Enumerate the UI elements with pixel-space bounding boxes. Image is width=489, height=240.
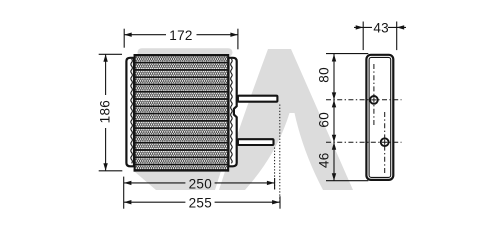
port center crosses (371, 97, 387, 145)
center line lower port (384, 112, 386, 173)
dimension column 80/60/46 (326, 54, 368, 181)
svg-text:250: 250 (189, 176, 212, 191)
lower pipe (238, 139, 274, 145)
dimension 172 (124, 29, 238, 50)
upper pipe (238, 96, 278, 102)
svg-text:43: 43 (373, 20, 389, 35)
left tank wavy seam (131, 59, 133, 163)
svg-text:255: 255 (189, 196, 212, 211)
svg-text:46: 46 (316, 152, 331, 168)
watermark lambda logo (219, 49, 353, 190)
watermark top band (138, 48, 233, 57)
upper port circle (370, 96, 378, 104)
dotted extension line from upper pipe (279, 105, 281, 204)
solid stub at 250 extension (274, 178, 276, 190)
svg-text:60: 60 (316, 112, 331, 128)
core left edge (134, 54, 136, 172)
svg-text:186: 186 (97, 100, 112, 123)
right tank (229, 58, 237, 167)
core top line (134, 54, 229, 56)
side view tank profile (366, 55, 393, 180)
svg-text:172: 172 (169, 28, 192, 43)
left tank (126, 58, 134, 167)
core right edge (227, 54, 229, 172)
right tank wavy seam (231, 59, 233, 163)
core bottom line (134, 169, 229, 171)
core block with fins (134, 54, 230, 172)
dimension 250 (124, 177, 275, 209)
horizontal center line lower (326, 141, 402, 143)
dotted extension line from lower pipe (274, 148, 276, 190)
horizontal center line upper (326, 99, 402, 101)
svg-text:80: 80 (316, 67, 331, 83)
dimension 186 (99, 54, 123, 171)
watermark swoosh behind core (134, 58, 237, 190)
center line upper port (373, 64, 375, 126)
dimension 43 (354, 22, 406, 51)
dimension 255 (124, 196, 280, 209)
lower port circle (381, 138, 389, 146)
